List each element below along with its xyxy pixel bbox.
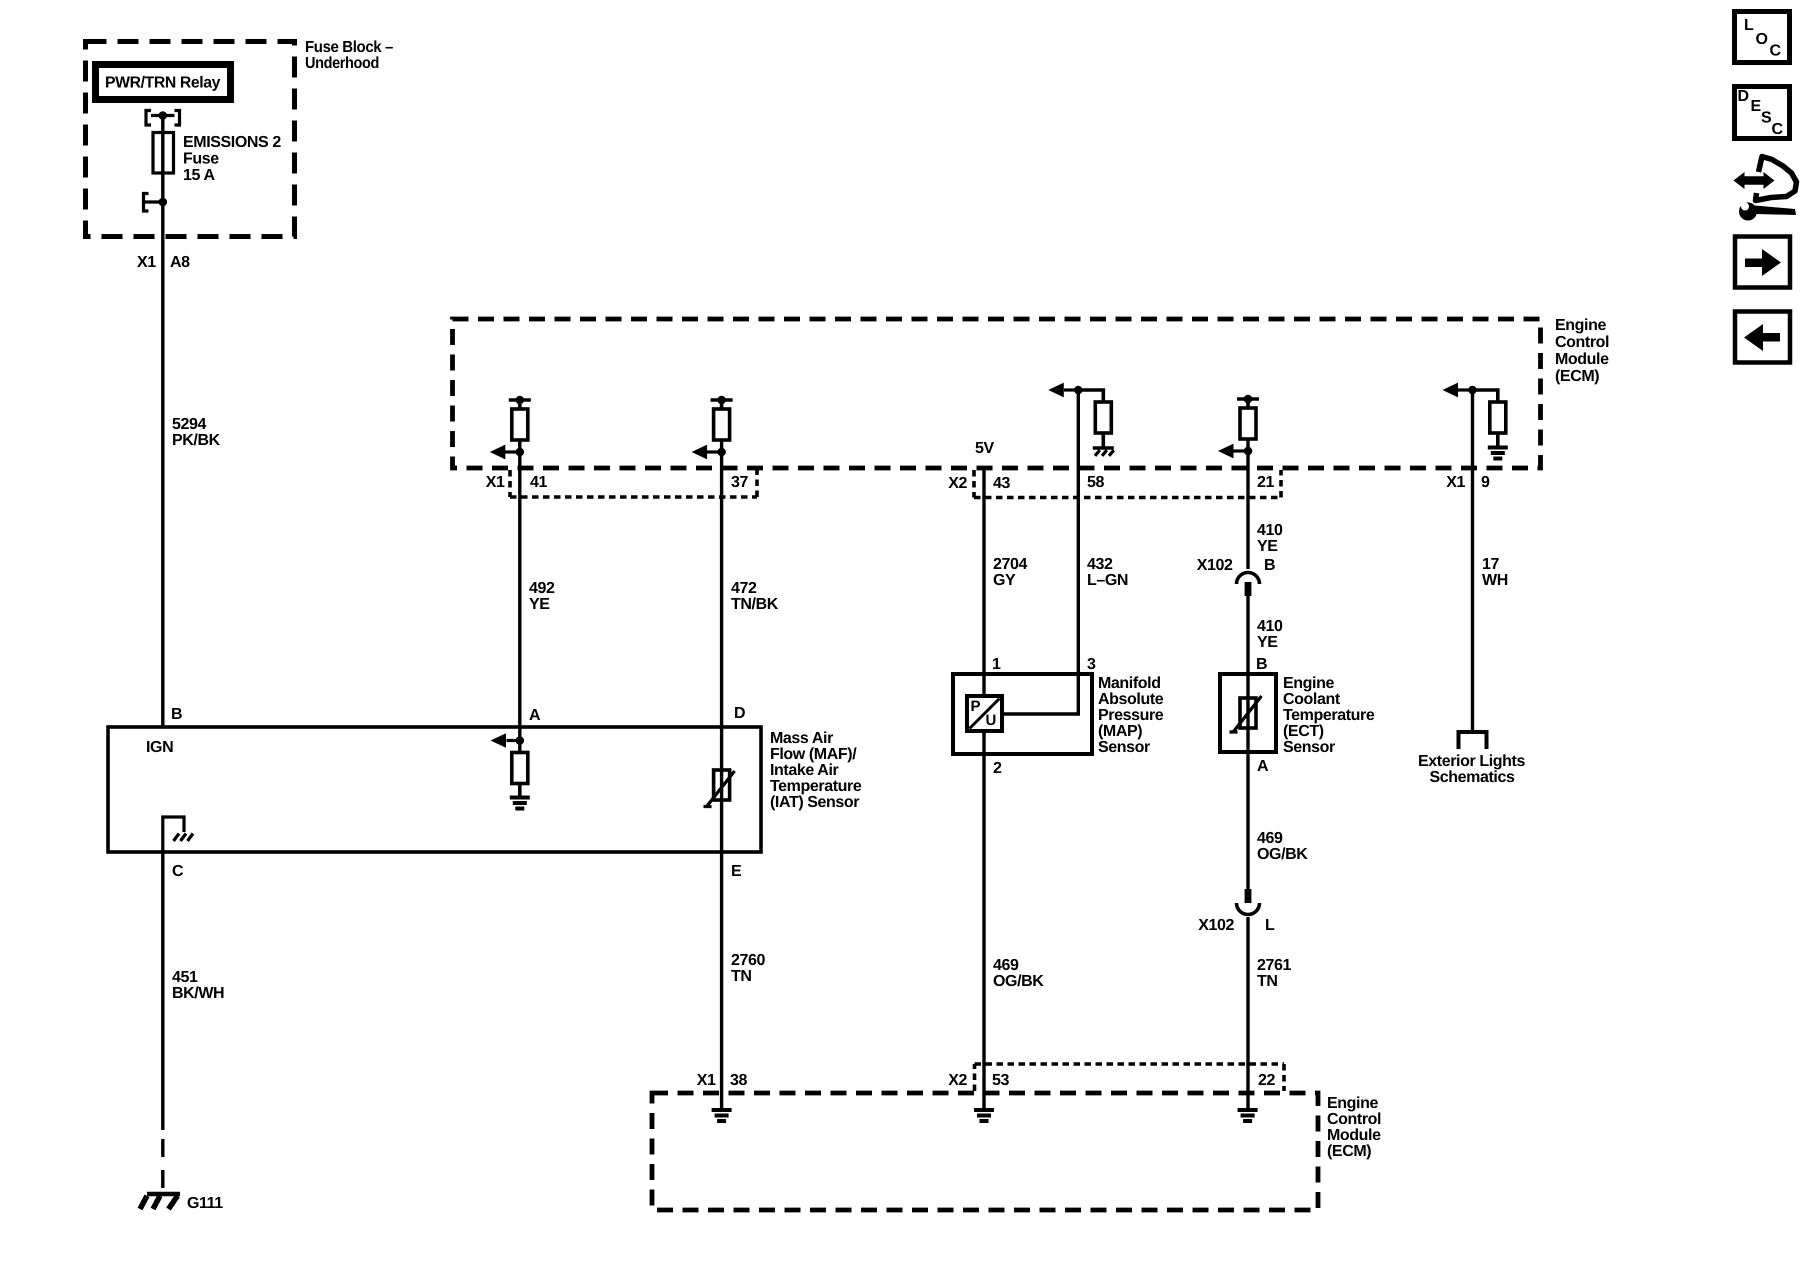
svg-text:PK/BK: PK/BK [172,432,221,449]
inline connector X102 pin L [1245,889,1252,903]
svg-text:U: U [986,712,996,729]
svg-text:E: E [1751,98,1762,115]
svg-text:38: 38 [730,1072,747,1089]
wire 410 YE : pin 21 to X102 B [1246,468,1249,569]
svg-text:Temperature: Temperature [1283,707,1375,724]
fuse block underhood dashed box [86,42,295,237]
svg-text:22: 22 [1258,1072,1275,1089]
svg-text:X2: X2 [948,475,967,492]
relay PWR/TRN Relay label box [96,65,231,100]
svg-text:472: 472 [731,580,757,597]
wire 17 WH : pin 9 to exterior lights [1471,468,1474,731]
svg-text:OG/BK: OG/BK [993,973,1044,990]
earth ground ECM pin 53 [974,1110,994,1121]
engine control module (ECM) bottom dashed box [652,1093,1318,1210]
svg-text:WH: WH [1482,572,1508,589]
svg-text:43: 43 [993,475,1010,492]
signal arrow pin 41 [504,450,520,453]
svg-text:410: 410 [1257,618,1283,635]
svg-text:410: 410 [1257,522,1283,539]
svg-text:Underhood: Underhood [305,55,379,72]
svg-text:C: C [1772,121,1784,138]
svg-text:Fuse: Fuse [183,151,219,168]
junction dot pin 37 [717,448,726,457]
svg-text:A: A [529,707,541,724]
svg-text:X1: X1 [697,1072,716,1089]
svg-text:(IAT) Sensor: (IAT) Sensor [770,794,859,811]
svg-text:D: D [1738,88,1749,105]
earth ground pin 9 [1488,448,1508,459]
svg-text:C: C [172,863,184,880]
wire 2760 TN : MAF E to ECM pin 38 [720,852,723,1108]
svg-text:S: S [1761,110,1772,127]
MAP sensor box [953,674,1092,754]
svg-text:Absolute: Absolute [1098,691,1164,708]
svg-text:Control: Control [1327,1111,1381,1128]
svg-text:A: A [1257,758,1269,775]
MAF internal: wire A arrow resistor ground [518,727,521,753]
wire 2761 TN : X102 L to ECM pin 22 [1246,917,1249,1108]
wire 2704 GY : pin 43 to MAP pin 1 [982,468,985,674]
svg-text:P: P [971,698,981,715]
svg-text:GY: GY [993,572,1016,589]
svg-text:Flow (MAF)/: Flow (MAF)/ [770,746,857,763]
wire 492 YE : pin 41 to MAF pin A [518,468,521,727]
svg-text:3: 3 [1087,656,1096,673]
icon schematic navigation (arrows and wrench) [1742,176,1766,185]
svg-text:(ECT): (ECT) [1283,723,1324,740]
MAF/IAT sensor box (IGN) [108,727,761,852]
wire 469 OG/BK : ECT A to X102 L [1246,752,1249,889]
svg-text:B: B [1264,557,1275,574]
icon back arrow button [1735,312,1790,363]
ground G111 [147,1192,180,1197]
svg-text:G111: G111 [187,1195,223,1212]
earth ground ECM pin 22 [1238,1110,1258,1121]
resistor above pin 41 [509,400,531,409]
earth ground ECM pin 38 [712,1110,732,1121]
chassis ground pin 58 [1093,446,1114,450]
wire 410 YE : X102 to ECT pin B [1246,596,1249,674]
svg-text:2761: 2761 [1257,957,1291,974]
svg-text:Engine: Engine [1555,317,1606,334]
svg-text:X1: X1 [1446,474,1465,491]
svg-text:O: O [1756,31,1768,48]
icon DESC button [1735,87,1790,139]
svg-text:Fuse Block –: Fuse Block – [305,39,393,56]
svg-text:Temperature: Temperature [770,778,862,795]
ECT sensor box [1220,674,1276,752]
relay output terminal brackets [146,111,151,126]
svg-text:B: B [1256,656,1267,673]
svg-text:Manifold: Manifold [1098,675,1161,692]
svg-text:(ECM): (ECM) [1327,1143,1371,1160]
svg-text:Exterior Lights: Exterior Lights [1418,753,1525,770]
svg-text:YE: YE [1257,538,1278,555]
svg-text:TN/BK: TN/BK [731,596,779,613]
MAP internal: P/U transducer symbol [982,674,985,754]
junction dot pin 41 [516,448,525,457]
svg-text:5V: 5V [975,440,994,457]
earth ground in MAF [510,798,530,809]
svg-text:X2: X2 [948,1072,967,1089]
svg-text:X1: X1 [137,254,156,271]
MAP internal: wire pin 3 to transducer [1002,674,1078,714]
svg-text:L: L [1744,17,1754,34]
svg-text:OG/BK: OG/BK [1257,846,1308,863]
svg-text:Sensor: Sensor [1283,739,1335,756]
svg-text:2704: 2704 [993,556,1027,573]
wire: relay terminal down to fuse and X1 A8 [161,116,164,728]
svg-text:492: 492 [529,580,555,597]
svg-text:IGN: IGN [146,739,173,756]
svg-text:53: 53 [992,1072,1009,1089]
icon LOC button [1735,12,1790,63]
svg-text:432: 432 [1087,556,1113,573]
inline connector X102 pin B [1237,573,1260,585]
resistor above pin 21 [1237,399,1259,408]
svg-text:9: 9 [1481,474,1490,491]
svg-text:21: 21 [1257,474,1274,491]
svg-text:1: 1 [992,656,1001,673]
svg-text:Module: Module [1555,351,1609,368]
signal arrow pin 21 [1233,449,1248,452]
svg-text:EMISSIONS 2: EMISSIONS 2 [183,134,281,151]
svg-text:Mass Air: Mass Air [770,730,833,747]
svg-text:Intake Air: Intake Air [770,762,838,779]
svg-text:Schematics: Schematics [1430,769,1515,786]
svg-text:2760: 2760 [731,952,765,969]
MAF internal: ground hook at pin C [163,817,184,852]
svg-text:58: 58 [1087,474,1104,491]
internal circuit pin 58: arrow, resistor, chassis ground [1074,386,1083,395]
svg-text:E: E [731,863,742,880]
splice hook to fuse block bus [144,194,163,212]
svg-text:TN: TN [1257,973,1278,990]
svg-text:L: L [1265,917,1275,934]
svg-text:PWR/TRN Relay: PWR/TRN Relay [105,75,220,92]
svg-text:469: 469 [1257,830,1283,847]
svg-text:2: 2 [993,760,1002,777]
wire 472 TN/BK : pin 37 to MAF pin D [720,468,723,727]
resistor above pin 37 [711,400,733,409]
svg-text:BK/WH: BK/WH [172,985,224,1002]
svg-text:C: C [1770,43,1782,60]
svg-text:X102: X102 [1198,917,1234,934]
ECM X1 connector dotted box (pins 41 37) [510,470,757,497]
svg-text:B: B [171,706,182,723]
fuse EMISSIONS 2 15 A [153,133,174,174]
signal arrow pin 37 [706,450,722,453]
svg-text:(MAP): (MAP) [1098,723,1142,740]
svg-text:X102: X102 [1197,557,1233,574]
engine control module (ECM) top dashed box [453,319,1541,468]
off-page fork to exterior lights [1457,732,1489,749]
ECT internal: thermistor [1246,674,1249,752]
svg-text:17: 17 [1482,556,1499,573]
svg-text:Module: Module [1327,1127,1381,1144]
ECM bottom X2 connector dotted box (pins 53 22) [975,1064,1285,1091]
svg-text:Sensor: Sensor [1098,739,1150,756]
svg-text:Engine: Engine [1327,1095,1378,1112]
svg-text:L–GN: L–GN [1087,572,1128,589]
ECM X2 connector dotted box (pins 43 58 21) [974,470,1281,498]
svg-text:37: 37 [731,474,748,491]
svg-text:A8: A8 [170,254,190,271]
svg-text:Coolant: Coolant [1283,691,1341,708]
svg-text:X1: X1 [486,474,505,491]
junction dot pin 21 [1244,447,1253,456]
svg-text:Pressure: Pressure [1098,707,1164,724]
internal circuit pin 9: arrow, resistor, earth ground [1468,386,1477,395]
svg-text:YE: YE [1257,634,1278,651]
junction dot below fuse [159,198,168,207]
MAF internal: IAT thermistor on pin D-E [720,727,723,852]
svg-text:15 A: 15 A [183,167,215,184]
svg-text:D: D [734,705,745,722]
svg-text:YE: YE [529,596,550,613]
junction dot under relay [159,111,168,120]
svg-text:Engine: Engine [1283,675,1334,692]
wire 469 OG/BK : MAP 2 to ECM pin 53 [982,754,985,1108]
wire 451 BK/WH : pin C to G111 [161,852,164,1130]
svg-text:(ECM): (ECM) [1555,368,1599,385]
svg-text:TN: TN [731,968,752,985]
svg-text:41: 41 [530,474,547,491]
wire 432 L-GN : pin 58 to MAP pin 3 [1077,468,1080,674]
icon next arrow button [1735,237,1790,288]
svg-text:469: 469 [993,957,1019,974]
svg-text:5294: 5294 [172,416,206,433]
svg-text:Control: Control [1555,334,1609,351]
svg-text:451: 451 [172,969,198,986]
